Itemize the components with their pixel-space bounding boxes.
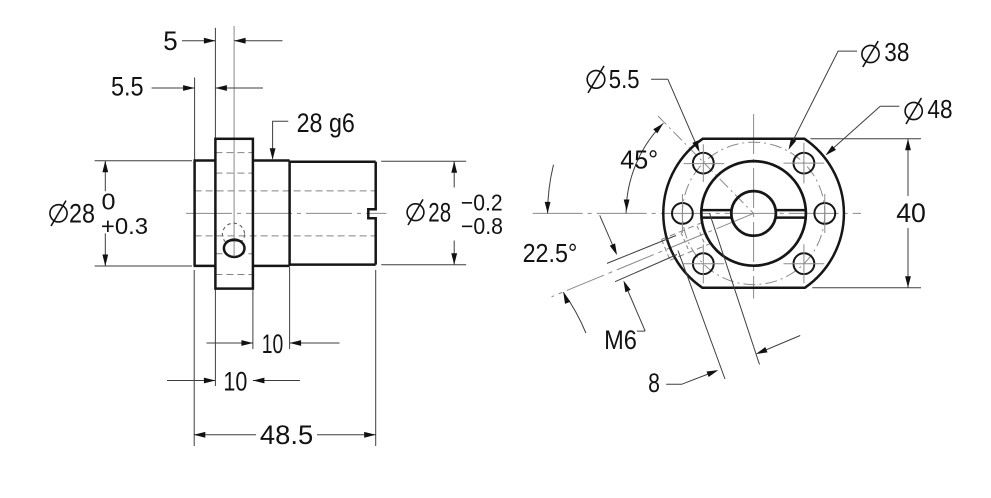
svg-text:−0.2: −0.2 [461,190,503,216]
body bottom edge left of flange [194,265,216,268]
dim 8 arrow right [758,336,800,354]
body top edge right section [290,161,376,164]
dim 48.5: dimension line [194,434,376,436]
side view horizontal center line [186,212,387,214]
cross marks hole 135deg [684,144,725,182]
dim 10 lower: left arrow line [167,380,215,382]
dim M6 arrow upper [600,215,616,252]
hidden bore line top [195,190,376,192]
M6 hidden thread cross dash 1 [697,226,705,244]
dim M6 arrow lower [625,283,646,331]
svg-text:5.5: 5.5 [111,71,144,101]
dim Ø48 leader [827,106,899,154]
M6 hidden hole edge line 1 [662,222,704,239]
cross marks hole 45deg [784,143,825,184]
bolt hole 45deg [794,153,815,174]
cross marks hole 225deg [684,244,725,283]
dim M6 extension line upper [607,236,676,264]
dim Ø28 left: dimension line with arrows [104,161,106,266]
dim Ø38: diameter symbol [862,41,879,67]
dim 10 lower: right arrow line [253,380,300,382]
svg-text:28: 28 [428,198,451,228]
body left end cap [193,161,196,266]
flange bolt-hole hidden line 4 [215,274,253,276]
clamp screw vertical axis line [233,26,235,257]
dim 10 upper: right arrow line [290,342,340,344]
dim Ø28 right: top extension line [381,160,466,162]
step line between sections [288,161,291,266]
front view horizontal center line [533,212,861,214]
dim M6 extension line lower [615,255,677,282]
svg-text:48: 48 [927,94,952,124]
cross mark hole 0deg [824,194,826,233]
body top edge g6 section [253,159,290,162]
flange bolt-hole hidden line 1 [215,152,253,154]
flange outline [215,139,253,289]
dim 8 extension line left [678,251,725,380]
body bottom edge g6 section [253,265,290,268]
slit line lower left [701,216,731,219]
body top edge left of flange [194,159,216,162]
M6 hidden hole edge line 2 [670,243,712,260]
dim Ø38 leader [790,51,858,147]
outer Ø48 outline with flats [663,139,844,288]
dim 8 arrow left with leader [666,371,716,384]
dim 8 extension line right [710,213,760,365]
hidden bore line bottom [195,235,376,237]
bolt hole 0deg [814,203,835,224]
svg-text:45°: 45° [620,144,658,174]
dim Ø28 right: dimension line with arrows [453,161,455,264]
Ø28 boss circle [701,161,806,266]
cross marks hole 315deg [784,244,825,283]
dim Ø28 left: diameter symbol [50,201,67,226]
bore circle [731,191,776,236]
svg-text:8: 8 [648,368,660,398]
svg-text:48.5: 48.5 [260,420,313,450]
bolt hole 315deg [794,253,815,274]
svg-text:5.5: 5.5 [609,64,640,94]
slit line lower right [776,216,806,219]
cross mark hole 180deg [681,194,683,233]
dim 22.5deg arc upper [548,165,554,214]
svg-text:38: 38 [884,37,909,67]
svg-text:22.5°: 22.5° [523,238,578,268]
dim Ø48: diameter symbol [905,98,922,124]
dim 5: dimension line left arrow [182,40,215,42]
bolt hole 180deg [672,203,693,224]
dim 40: top extension line [810,138,921,140]
dim 10 upper: left extension line (flange right) [252,290,254,350]
body bottom edge right section [290,263,376,266]
clamp screw hole circle [224,240,245,257]
dim 40: dimension line [907,139,909,288]
svg-text:10: 10 [223,366,247,396]
svg-text:5: 5 [163,26,177,56]
svg-text:28: 28 [69,199,95,229]
dim 10 upper: left arrow line [207,342,253,344]
dim 40: bottom extension line [812,287,921,289]
bolt hole 225deg [693,253,714,274]
dim Ø5.5 leader [651,79,699,150]
dim Ø28 right: bottom extension line [381,264,466,266]
dim 48.5: left extension line [193,270,195,446]
svg-text:−0.8: −0.8 [461,213,503,239]
front view vertical center line [753,114,755,299]
body left edge extension line (dim 5.5) [194,78,196,161]
dim 48.5: right extension line [375,270,377,446]
svg-text:10: 10 [262,329,284,359]
clamp screw axis line at 22.5deg [552,213,754,296]
svg-text:40: 40 [896,198,926,228]
dim 5.5: dimension line right arrow [215,87,263,89]
dim 45deg arc [626,123,663,213]
dim Ø28 left: top extension line [95,160,192,162]
svg-text:M6: M6 [604,325,637,355]
dim 5.5: dimension line left arrow [152,87,195,89]
dim 5: dimension line right arrow [234,40,282,42]
dim Ø28 right: diameter symbol [407,199,424,225]
bolt hole 135deg [693,153,714,174]
slit line upper right [776,209,806,212]
28 g6 leader elbow [273,121,289,158]
dim 10 lower: left extension line (flange left) [214,290,216,387]
svg-text:0: 0 [102,188,116,214]
svg-text:28 g6: 28 g6 [297,108,355,138]
dim 22.5deg arc lower [563,292,586,333]
clamp screw thread hidden circle [222,223,244,245]
svg-text:+0.3: +0.3 [101,213,148,239]
clamp screw hole top edge arc [227,240,242,242]
dim Ø5.5: diameter symbol [587,66,605,93]
bolt circle Ø38 [682,142,824,284]
flange left edge extension line (dim 5 / 5.5) [214,28,216,139]
M6 hidden hole end line [662,239,671,260]
flange bolt-hole hidden line 3 [215,253,253,255]
body right end with groove notch [368,162,375,265]
flange bolt-hole hidden line 2 [215,172,253,174]
slit line upper left [701,209,731,212]
radial center line through 135deg hole [658,116,754,213]
screw axis segment inside hole circle [233,241,235,257]
dim Ø28 left: bottom extension line [95,265,192,267]
M6 hidden thread cross dash 2 [681,233,689,251]
dim 10 upper: right extension line (step) [289,267,291,349]
